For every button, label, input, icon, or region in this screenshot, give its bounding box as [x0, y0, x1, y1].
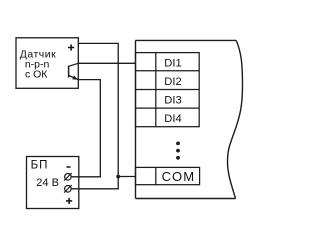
svg-text:COM: COM	[162, 169, 195, 184]
svg-text:DI3: DI3	[164, 95, 181, 107]
svg-text:24 В: 24 В	[36, 177, 59, 189]
svg-text:с ОК: с ОК	[25, 69, 48, 81]
svg-text:DI2: DI2	[164, 76, 181, 88]
svg-text:DI1: DI1	[164, 58, 181, 70]
svg-text:DI4: DI4	[164, 113, 181, 125]
svg-text:БП: БП	[31, 160, 49, 172]
